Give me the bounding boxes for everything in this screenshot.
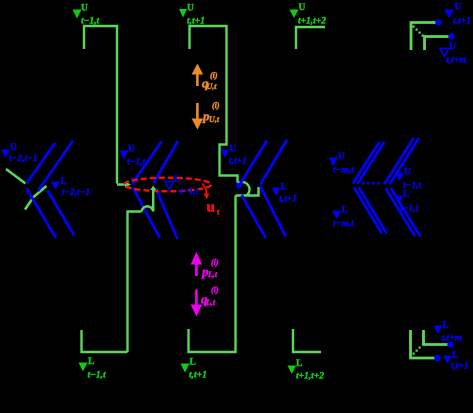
flux arrow p U down (orange) xyxy=(192,103,204,130)
label nabla L t-1,t (blue hollow, inside ellipse) xyxy=(165,175,199,198)
ray group right-centre: incoming ray 2 xyxy=(260,140,287,185)
svg-text:L,t: L,t xyxy=(205,298,216,307)
svg-text:t−1,t: t−1,t xyxy=(180,187,199,197)
ray group left: outgoing ray 2 xyxy=(48,191,75,236)
estimation ellipse (red dashed) xyxy=(124,178,211,192)
svg-text:L: L xyxy=(403,190,409,200)
svg-text:t−m,t: t−m,t xyxy=(333,166,354,176)
svg-text:t−1,t: t−1,t xyxy=(400,204,419,214)
svg-text:t−2,t−1: t−2,t−1 xyxy=(62,188,91,198)
label nabla L t,t+m (blue, bottom icon) xyxy=(434,321,462,344)
step U2 (top-middle upper mirror segment) xyxy=(190,26,259,196)
svg-text:U: U xyxy=(10,143,17,153)
svg-text:t−1,t: t−1,t xyxy=(81,17,100,27)
label nabla U t,t+m (blue hollow, top-right icon) xyxy=(440,42,466,66)
arrowhead incoming centre ray 1 xyxy=(131,177,138,186)
svg-text:L: L xyxy=(281,183,287,193)
ray group right-centre: outgoing ray 1 xyxy=(242,195,266,238)
svg-text:L: L xyxy=(61,177,67,187)
flux arrow p L up (magenta) xyxy=(191,252,203,276)
svg-text:t+1,t+2: t+1,t+2 xyxy=(296,372,324,382)
node dot lower icon inner xyxy=(447,341,453,347)
svg-text:L: L xyxy=(174,175,180,185)
svg-text:U: U xyxy=(404,168,411,178)
svg-text:U: U xyxy=(455,3,462,13)
svg-text:t−m,t: t−m,t xyxy=(333,219,354,229)
label nabla U t-1,t (blue, centre) xyxy=(120,145,146,168)
step L1 (bottom-left lower mirror segment) xyxy=(82,330,128,352)
arrowhead up into ellipse (left lower lead) xyxy=(150,186,156,191)
label nabla L t-m,t (blue) xyxy=(332,206,354,230)
ray group right-centre: incoming ray 1 xyxy=(239,141,268,187)
svg-text:t,t+1: t,t+1 xyxy=(451,362,469,372)
svg-text:U: U xyxy=(81,4,88,14)
svg-text:t−1,t: t−1,t xyxy=(127,158,146,168)
svg-text:L: L xyxy=(452,351,458,361)
svg-text:t,t+1: t,t+1 xyxy=(229,157,247,167)
ray bundle right A: incoming ray 2 xyxy=(358,142,385,184)
svg-text:t,t+1: t,t+1 xyxy=(187,17,205,27)
ray group centre: incoming ray 2 xyxy=(154,141,179,183)
label nabla L t-2,t-1 (blue) xyxy=(51,177,90,198)
label nabla L t,t+1 (blue, bottom icon) xyxy=(443,351,469,372)
svg-text:U,t: U,t xyxy=(207,82,218,91)
svg-text:L,t: L,t xyxy=(207,270,218,279)
ray bundle right A: outgoing ray 2 xyxy=(359,187,387,233)
label nabla L t,t+1 (green, bottom-middle) xyxy=(181,358,207,381)
bottom-right axis icon (lower detector) xyxy=(411,330,450,358)
node dot lower icon outer xyxy=(434,355,440,361)
flux arrow q U up (orange) xyxy=(192,64,204,87)
svg-text:t,t+1: t,t+1 xyxy=(279,195,297,205)
svg-text:L: L xyxy=(88,357,94,367)
label p U,t (i) (orange) xyxy=(202,101,220,124)
svg-text:L: L xyxy=(443,321,449,331)
left wavefront green tick upper xyxy=(6,169,26,184)
svg-text:U,t: U,t xyxy=(209,115,220,124)
label nabla L t-1,t (green, bottom-left) xyxy=(79,357,107,381)
lower mirror lead left: long vertical and hop xyxy=(128,189,154,352)
ray bundle right B: outgoing ray 2 xyxy=(391,188,420,236)
svg-text:t,t+m: t,t+m xyxy=(446,56,466,66)
ray bundle right B: incoming ray 2 xyxy=(390,138,419,184)
node dot lower xyxy=(448,33,454,39)
pointer line to u_t (red) xyxy=(203,184,207,194)
label u_t (red) xyxy=(207,200,221,217)
label nabla U t-1,t (blue, right bundle) xyxy=(395,168,422,192)
step U1 (top-left upper mirror segment) xyxy=(84,26,126,185)
svg-text:(i): (i) xyxy=(212,101,220,110)
label nabla L t-1,t (blue, right bundle) xyxy=(394,190,419,215)
svg-text:L: L xyxy=(190,358,196,368)
svg-text:U: U xyxy=(449,42,456,52)
ray bundle right B: incoming ray 1 xyxy=(384,138,413,184)
svg-text:L: L xyxy=(296,359,302,369)
node dot upper xyxy=(435,19,441,25)
wire hop over ray (left) xyxy=(142,206,154,211)
svg-text:t,t+1: t,t+1 xyxy=(189,371,207,381)
label nabla U t,t+1 (blue, top-right icon) xyxy=(444,3,471,27)
top-right axis icon (upper detector) xyxy=(411,23,450,51)
flux arrow q L down (magenta) xyxy=(191,290,203,317)
arrow head of U1 lead into ellipse xyxy=(125,182,131,188)
svg-text:U: U xyxy=(187,4,194,14)
ray bundle right A: outgoing ray 1 xyxy=(354,187,382,233)
svg-text:(i): (i) xyxy=(211,258,219,267)
label nabla L t,t+1 (blue, right-centre) xyxy=(272,183,297,205)
dots between bundles xyxy=(362,182,380,185)
label nabla U t-1,t (green, top-left) xyxy=(73,4,100,27)
svg-text:L: L xyxy=(342,206,348,216)
svg-text:U: U xyxy=(338,152,345,162)
ray group left: outgoing ray 1 xyxy=(27,189,57,239)
ray bundle right B: outgoing ray 1 xyxy=(386,188,415,236)
label nabla U t,t+1 (green, top-middle) xyxy=(179,4,205,27)
left wavefront green tick lower xyxy=(25,186,47,210)
svg-text:t+1,t+2: t+1,t+2 xyxy=(298,17,326,27)
svg-text:U: U xyxy=(128,145,135,155)
ray group centre: incoming ray 1 xyxy=(134,142,162,183)
ray group centre: outgoing ray 1 xyxy=(133,188,160,239)
label nabla U t-2,t-1 (blue) xyxy=(1,143,38,164)
svg-text:U: U xyxy=(299,3,306,13)
label q U,t (i) (orange) xyxy=(202,71,218,91)
ray bundle right A: incoming ray 1 xyxy=(353,142,380,184)
svg-text:u: u xyxy=(207,200,215,216)
pointer arrowhead (red) xyxy=(204,194,210,200)
label nabla U t+1,t+2 (green, top-right) xyxy=(290,3,327,27)
dotted diagonal of bottom-right icon xyxy=(413,347,421,355)
label nabla U t-m,t (blue) xyxy=(329,152,355,176)
svg-text:t,t+m: t,t+m xyxy=(442,334,462,344)
step U3 (top-right upper mirror corner) xyxy=(296,27,325,49)
svg-text:t,t+1: t,t+1 xyxy=(453,17,471,27)
dotted diagonal of top-right icon xyxy=(413,26,424,37)
svg-text:U: U xyxy=(230,145,237,155)
label nabla L t+1,t+2 (green, bottom-right) xyxy=(288,359,325,382)
ray group right-centre: outgoing ray 2 xyxy=(260,186,285,237)
ray group left: incoming ray 2 xyxy=(38,141,73,192)
svg-text:(i): (i) xyxy=(211,286,219,295)
arrowhead incoming right-centre ray 1 xyxy=(236,182,243,191)
label p L,t (i) (magenta) xyxy=(201,258,219,279)
step L2 (bottom-middle lower mirror segment) xyxy=(189,196,236,353)
label q L,t (i) (magenta) xyxy=(201,286,219,308)
svg-text:t−1,t: t−1,t xyxy=(88,371,107,381)
svg-text:t−2,t−1: t−2,t−1 xyxy=(9,154,38,164)
svg-text:(i): (i) xyxy=(210,71,218,80)
ray group left: incoming ray 1 xyxy=(27,143,56,184)
wire hop over ray (right) xyxy=(238,182,250,196)
step L3 (bottom-right lower mirror corner) xyxy=(293,329,321,352)
ray group centre: outgoing ray 2 xyxy=(156,189,178,240)
label nabla U t,t+1 (blue, right of centre) xyxy=(221,145,247,167)
